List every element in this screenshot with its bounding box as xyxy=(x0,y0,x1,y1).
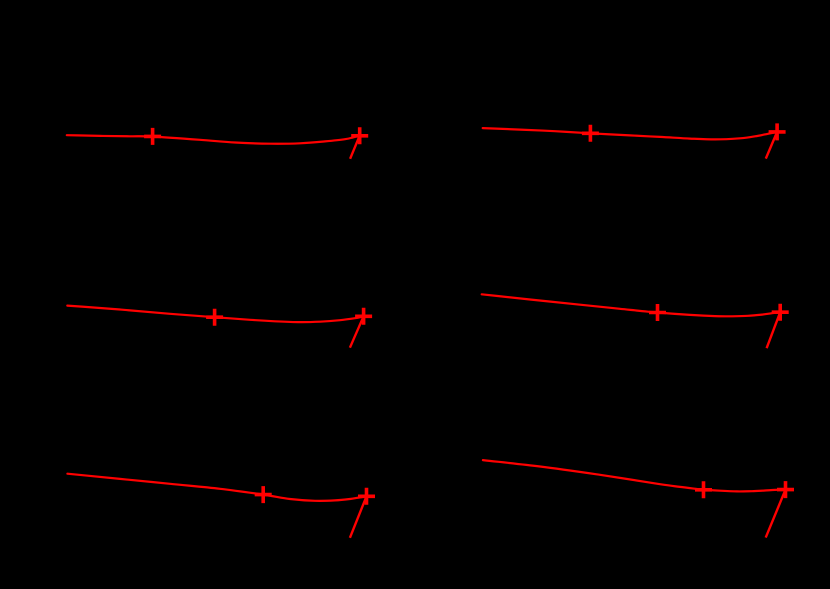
steep tail segment of curve 2 xyxy=(766,132,777,159)
steep tail segment of curve 3 xyxy=(350,316,364,347)
plus marker 2 on curve 5 xyxy=(358,488,375,505)
plus marker 1 on curve 1 xyxy=(144,128,161,145)
curve 2 (top-right subplot) xyxy=(483,128,777,139)
plus marker 2 on curve 1 xyxy=(351,127,368,144)
plus marker 2 on curve 4 xyxy=(772,304,789,321)
plus marker 1 on curve 6 xyxy=(695,481,712,498)
curve 1 (top-left subplot) xyxy=(67,135,360,144)
steep tail segment of curve 4 xyxy=(767,312,781,348)
steep tail segment of curve 1 xyxy=(350,136,360,159)
plus marker 2 on curve 6 xyxy=(777,481,794,498)
curve 3 (middle-left subplot) xyxy=(67,306,363,323)
plus marker 1 on curve 3 xyxy=(206,309,223,326)
plus marker 1 on curve 5 xyxy=(255,486,272,503)
curve 5 (bottom-left subplot) xyxy=(67,474,366,501)
curve 6 (bottom-right subplot) xyxy=(483,460,786,491)
plus marker 1 on curve 4 xyxy=(649,304,666,321)
steep tail segment of curve 6 xyxy=(766,490,786,538)
plus marker 2 on curve 2 xyxy=(769,123,786,140)
plus marker 2 on curve 3 xyxy=(355,308,372,325)
steep tail segment of curve 5 xyxy=(350,496,367,538)
plus marker 1 on curve 2 xyxy=(582,125,599,142)
curve 4 (middle-right subplot) xyxy=(482,294,781,316)
